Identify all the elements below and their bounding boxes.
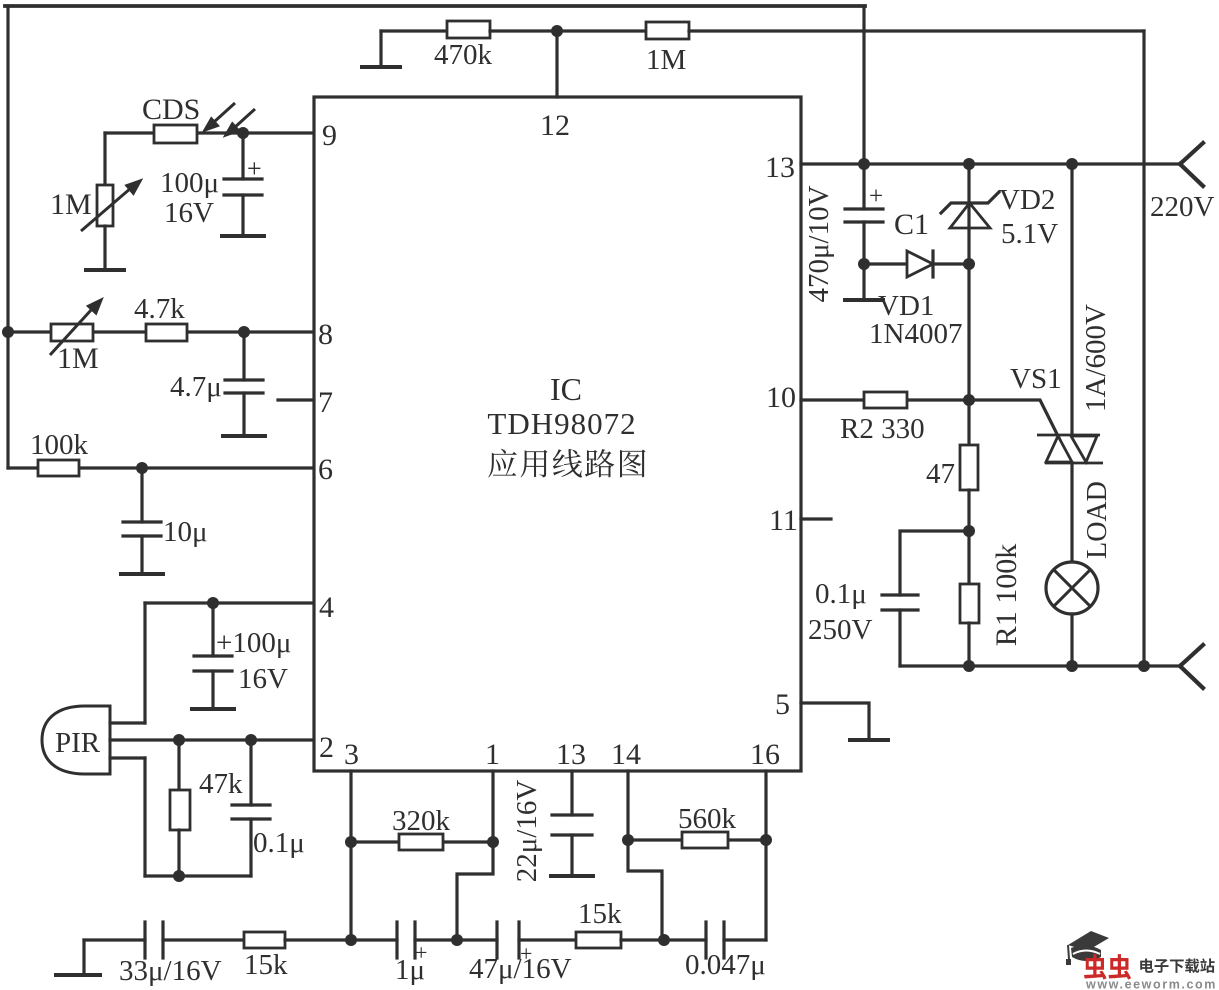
wire pin-1 drop (491, 771, 494, 842)
junction node VD1 cathode / VD2 anode (963, 258, 975, 270)
watermark graduation cap icon (1066, 931, 1109, 965)
ground at 470k left (379, 31, 382, 66)
svg-text:4.7μ: 4.7μ (170, 371, 222, 403)
capacitor 0.1u/250V snubber loop (900, 531, 969, 595)
wire 470k/1M bias row (381, 29, 447, 32)
resistor 1M top (646, 22, 689, 39)
wire bottom rail left segment (84, 938, 145, 941)
svg-text:1N4007: 1N4007 (869, 318, 962, 350)
wire 47u to 15k (519, 938, 576, 941)
wire 15k to pin3 node (285, 938, 351, 941)
junction node left rail / pin8 (2, 326, 14, 338)
svg-text:470k: 470k (434, 39, 493, 71)
svg-text:C1: C1 (894, 208, 929, 241)
svg-text:2: 2 (319, 731, 334, 764)
wire pin4 corner down to PIR top lead (143, 603, 146, 723)
svg-text:1M: 1M (57, 342, 99, 375)
svg-text:220V: 220V (1150, 191, 1215, 223)
junction node pin12 top (551, 25, 563, 37)
capacitor 0.047u (704, 922, 707, 958)
wire pin 12 drop (555, 31, 558, 97)
junction node pin1 bottom (451, 934, 463, 946)
triac VS1 symbol (1070, 164, 1073, 435)
capacitor 22u/16V at pin 13b (570, 771, 573, 815)
resistor R2 330 (864, 392, 907, 408)
IC chinese caption 应用线路图 (488, 449, 516, 478)
junction node gate divider (963, 394, 975, 406)
svg-text:10μ: 10μ (163, 516, 208, 548)
PIR sensor body (42, 706, 110, 774)
resistor 100k (38, 460, 79, 476)
220V neutral terminal arrow (1180, 645, 1203, 688)
diode VD1 1N4007 (864, 262, 969, 265)
junction node triac anode (1066, 158, 1078, 170)
svg-text:4.7k: 4.7k (134, 293, 185, 325)
svg-text:320k: 320k (392, 805, 451, 837)
potentiometer 1M (horizontal rheostat) (51, 324, 93, 341)
svg-text:+100μ: +100μ (216, 627, 291, 659)
svg-text:0.1μ: 0.1μ (253, 827, 305, 859)
junction node pin3 bottom (345, 934, 357, 946)
junction node pin3 / 320k (345, 836, 357, 848)
wire to 47u cap (457, 938, 497, 941)
svg-text:www.eeworm.com: www.eeworm.com (1085, 978, 1217, 990)
junction node pin2 / 0.1u (245, 734, 257, 746)
svg-text:VD2: VD2 (999, 184, 1055, 216)
wire pin-13 net to 220V terminal (801, 162, 1180, 165)
junction node pin1 / 320k (487, 836, 499, 848)
ground at bottom-left rail (82, 940, 85, 974)
resistor R1 100k (967, 531, 970, 584)
capacitor C1 470u/10V (862, 164, 865, 209)
svg-text:CDS: CDS (142, 93, 200, 126)
svg-text:TDH98072: TDH98072 (487, 406, 636, 441)
wire 15k to pin14 node (621, 938, 664, 941)
junction node C1 top (858, 158, 870, 170)
wire lamp to bottom rail (1070, 614, 1073, 666)
wire pin-5 to ground (801, 703, 869, 739)
svg-text:0.047μ: 0.047μ (685, 949, 766, 981)
wire to 15k (163, 938, 244, 941)
svg-text:9: 9 (322, 119, 337, 152)
wire pin-4 net (145, 601, 314, 604)
wire left rail down left edge (6, 6, 9, 468)
svg-text:22μ/16V: 22μ/16V (511, 780, 543, 883)
wire 560k row (628, 838, 766, 841)
wire 1M to right rail corner (689, 29, 1144, 32)
junction node R1 bottom (963, 660, 975, 672)
svg-text:14: 14 (611, 738, 641, 771)
capacitor 47u/16V (495, 922, 498, 958)
svg-text:IC: IC (550, 371, 582, 407)
svg-text:100μ: 100μ (160, 167, 219, 199)
svg-text:10: 10 (766, 381, 796, 414)
junction node pin14 bottom (658, 934, 670, 946)
junction node pin14 / 560k (622, 834, 634, 846)
svg-text:5.1V: 5.1V (1001, 218, 1058, 250)
capacitor 1u (395, 922, 398, 958)
svg-text:33μ/16V: 33μ/16V (119, 955, 222, 987)
svg-text:3: 3 (344, 738, 359, 771)
wire pin-7 stub (278, 398, 314, 401)
resistor 560k (682, 832, 728, 848)
resistor 47k (177, 740, 180, 790)
junction node VD2 top (963, 158, 975, 170)
svg-text:1μ: 1μ (395, 954, 425, 986)
resistor 4.7k (146, 324, 187, 341)
svg-text:1M: 1M (50, 188, 92, 221)
junction node 47k bottom (173, 870, 185, 882)
wire pin-16 drop (764, 771, 767, 840)
svg-text:1M: 1M (646, 44, 686, 76)
svg-text:16V: 16V (164, 197, 214, 229)
wire bottom 220V rail (900, 664, 1180, 667)
wire top rail from top-left corner to C1 node column (5, 4, 865, 8)
svg-text:47k: 47k (199, 768, 243, 800)
wire pin1 jog to bottom rail (457, 842, 493, 940)
svg-text:VS1: VS1 (1010, 363, 1062, 395)
svg-text:12: 12 (540, 109, 570, 142)
svg-text:13: 13 (556, 738, 586, 771)
potentiometer 1M (vertical rheostat) (97, 185, 113, 226)
wire pin-14 drop (626, 771, 629, 840)
wire triac to lamp (1070, 463, 1073, 562)
photoresistor CDS (154, 125, 197, 143)
junction node pin8 / 4.7u (238, 326, 250, 338)
wire pin-9 net: CDS row from 1M top corner to IC pin 9 (105, 131, 314, 134)
wire 470k to junction (490, 29, 557, 32)
svg-text:R2 330: R2 330 (840, 413, 925, 445)
junction node 47/R1/0.1u (963, 525, 975, 537)
resistor 47 (967, 400, 970, 445)
svg-text:100k: 100k (30, 429, 89, 461)
capacitor 33u/16V (143, 922, 146, 958)
svg-text:250V: 250V (808, 614, 873, 646)
wire pin-3 drop (349, 771, 352, 940)
ground at pin 5 (850, 738, 888, 742)
svg-text:15k: 15k (578, 898, 622, 930)
wire to 0.047u cap (664, 938, 706, 941)
svg-text:11: 11 (769, 504, 798, 537)
svg-text:R1 100k: R1 100k (990, 544, 1023, 647)
capacitor 100u/16V at pin 9 (241, 133, 244, 179)
wire 1u to pin1 node (415, 938, 457, 941)
wire VD1 node down to pin10 node (967, 264, 970, 400)
svg-text:1: 1 (485, 738, 500, 771)
wire CDS left leg down to rheostat (103, 133, 106, 185)
wire 320k row (351, 840, 493, 843)
svg-text:16: 16 (750, 738, 780, 771)
wire PIR top lead (110, 721, 145, 724)
junction node right rail bottom (1138, 660, 1150, 672)
watermark site name text (1140, 959, 1153, 973)
junction node pin4 / 100u (207, 597, 219, 609)
wire pin-10 net (801, 398, 969, 401)
junction node pin16 / 560k (760, 834, 772, 846)
svg-text:470μ/10V: 470μ/10V (803, 185, 835, 302)
svg-text:560k: 560k (678, 803, 737, 835)
resistor 470k (447, 21, 490, 38)
svg-text:1A/600V: 1A/600V (1080, 304, 1112, 412)
ground below 1M rheostat (86, 268, 124, 272)
lamp LOAD (1046, 562, 1098, 614)
wire pin-2 net from PIR to IC pin 2 (110, 738, 314, 741)
svg-text:4: 4 (319, 591, 334, 624)
svg-text:16V: 16V (238, 663, 288, 695)
svg-text:7: 7 (318, 386, 333, 419)
wire top rail corner down to pin13 node (862, 6, 865, 164)
capacitor 10u (140, 468, 143, 522)
resistor 15k bottom-left (244, 932, 285, 948)
wire pin-6 net: 100k row (8, 466, 314, 469)
capacitor 100u/16V at pin 4 (211, 603, 214, 656)
220V live terminal arrow (1180, 143, 1203, 186)
capacitor 4.7u (242, 332, 245, 380)
resistor 320k (399, 834, 443, 850)
junction node VD1 left (858, 258, 870, 270)
svg-text:13: 13 (765, 151, 795, 184)
svg-text:8: 8 (318, 318, 333, 351)
zener diode VD2 5.1V (967, 164, 970, 264)
svg-text:5: 5 (775, 688, 790, 721)
wire pin14 jog to bottom rail (628, 840, 662, 940)
junction node pin2 / 47k (173, 734, 185, 746)
svg-text:LOAD: LOAD (1082, 481, 1113, 559)
watermark chongchong red text (1084, 954, 1106, 980)
capacitor 0.1u at pin 2 (249, 740, 252, 805)
svg-text:47μ/16V: 47μ/16V (469, 953, 572, 985)
wire right rail down to bottom 220V rail (1142, 31, 1145, 666)
junction node pin9/CDS/C100u (237, 127, 249, 139)
wire 0.047u to pin16 column (724, 938, 766, 941)
wire pin-8 net from left rail to IC pin 8 (8, 330, 314, 333)
svg-text:15k: 15k (244, 949, 288, 981)
junction node pin6 / 10u (136, 462, 148, 474)
op-amp IC U1 TDH98072 body (314, 97, 801, 771)
wire PIR bottom lead (110, 756, 145, 759)
light arrows onto CDS (205, 103, 255, 135)
wire junction to 1M (557, 29, 646, 32)
triac gate wire (969, 400, 1060, 440)
wire to 1u cap (351, 938, 397, 941)
junction node lamp bottom (1066, 660, 1078, 672)
wire pin-11 stub (801, 517, 831, 520)
resistor 15k bottom-middle (576, 932, 621, 948)
svg-text:6: 6 (318, 453, 333, 486)
svg-text:+: + (869, 183, 883, 210)
svg-text:47: 47 (926, 458, 955, 490)
wire PIR ground rail (145, 874, 251, 877)
svg-text:PIR: PIR (55, 727, 101, 759)
svg-text:0.1μ: 0.1μ (815, 578, 867, 610)
